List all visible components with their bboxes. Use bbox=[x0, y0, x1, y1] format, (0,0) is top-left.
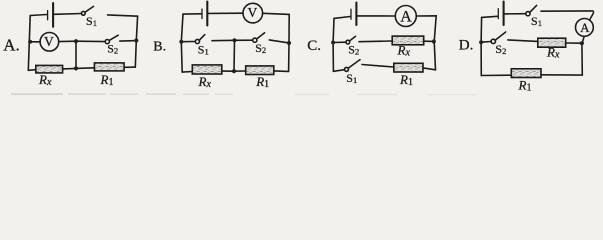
wire C top-left bbox=[334, 17, 350, 19]
wire node to R1 bbox=[234, 70, 246, 72]
wire node to S2 bbox=[235, 39, 253, 41]
battery bbox=[498, 2, 503, 26]
wire S2 to Rx bbox=[508, 40, 538, 42]
resistor R1 bbox=[246, 66, 274, 75]
wire V to middle node bbox=[59, 40, 76, 42]
wire A to top-right corner bbox=[416, 16, 436, 42]
wire S2 to right wire bbox=[269, 40, 289, 43]
svg-text:R1: R1 bbox=[518, 77, 532, 93]
resistor Rx bbox=[192, 65, 222, 74]
junction bbox=[28, 40, 32, 44]
wire bottom-left bbox=[481, 74, 511, 76]
svg-text:S1: S1 bbox=[198, 42, 209, 56]
svg-text:S1: S1 bbox=[86, 14, 97, 28]
wire node to S2 bbox=[76, 40, 105, 42]
wire R1 to bottom-right bbox=[541, 74, 582, 76]
ammeter A bbox=[576, 19, 594, 37]
wire D top-left bbox=[482, 16, 498, 17]
resistor Rx bbox=[36, 65, 63, 73]
wire S1 to top-right corner bbox=[108, 15, 138, 41]
svg-text:D.: D. bbox=[459, 37, 474, 53]
junction bbox=[287, 41, 291, 45]
junction bbox=[74, 66, 78, 70]
junction bbox=[479, 40, 483, 44]
wire left bottom corner to S1 bbox=[333, 70, 344, 72]
wire V to top-right corner bbox=[263, 13, 290, 43]
voltmeter V bbox=[40, 33, 59, 52]
battery bbox=[48, 3, 54, 27]
wire left to S2 bbox=[481, 41, 491, 44]
wire Rx to node bbox=[222, 70, 234, 72]
wire battery to S1 bbox=[505, 13, 526, 15]
wire A left side bbox=[28, 16, 30, 71]
wire battery to A bbox=[358, 15, 395, 17]
wire A to junction bbox=[582, 36, 584, 43]
svg-text:R1: R1 bbox=[255, 74, 269, 90]
svg-text:A: A bbox=[580, 20, 590, 35]
wire left to S1 bbox=[181, 41, 195, 43]
junction bbox=[179, 40, 183, 44]
voltmeter V bbox=[243, 3, 263, 23]
wire C left side bbox=[332, 19, 335, 72]
wire S2 to right wire bbox=[120, 40, 137, 43]
switch S1 bbox=[345, 60, 361, 72]
battery bbox=[202, 2, 207, 26]
svg-text:R1: R1 bbox=[399, 72, 413, 88]
switch S2 bbox=[491, 32, 506, 44]
junction bbox=[580, 41, 584, 45]
switch S1 bbox=[195, 35, 205, 44]
wire A top-left bbox=[30, 15, 47, 16]
junction bbox=[232, 38, 236, 42]
wire battery to S1 bbox=[54, 13, 81, 16]
wire D left side bbox=[480, 17, 483, 75]
bleed-through smudge bottom-left bbox=[11, 93, 476, 95]
wire battery to V bbox=[209, 12, 244, 14]
svg-text:S1: S1 bbox=[531, 14, 542, 28]
wire Rx to junction bbox=[566, 42, 582, 44]
svg-text:B.: B. bbox=[153, 39, 166, 54]
switch S2 bbox=[253, 33, 265, 43]
svg-text:A: A bbox=[400, 9, 412, 26]
wire right side down bbox=[434, 42, 435, 70]
wire right side down bbox=[581, 43, 583, 75]
svg-text:S1: S1 bbox=[346, 71, 357, 85]
wire left to V bbox=[30, 41, 40, 43]
svg-text:Rx: Rx bbox=[198, 74, 212, 90]
resistor Rx bbox=[538, 38, 566, 47]
junction bbox=[331, 41, 335, 45]
switch S2 bbox=[346, 36, 356, 44]
junction bbox=[74, 39, 78, 43]
switch S2 bbox=[105, 35, 118, 44]
wire bottom-left bbox=[28, 69, 36, 72]
svg-text:R1: R1 bbox=[100, 72, 114, 88]
wire bottom-left bbox=[182, 71, 192, 74]
resistor R1 bbox=[394, 63, 423, 72]
wire middle vertical bbox=[75, 41, 77, 68]
wire S1 to middle node bbox=[212, 39, 235, 41]
resistor R1 bbox=[94, 63, 124, 71]
junction bbox=[432, 39, 436, 43]
wire node to R1 bbox=[76, 67, 94, 70]
svg-text:S2: S2 bbox=[348, 43, 359, 57]
wire S1 to top-right corner bbox=[541, 11, 594, 20]
resistor R1 bbox=[511, 69, 541, 78]
svg-text:S2: S2 bbox=[107, 41, 118, 55]
resistor Rx bbox=[392, 36, 424, 45]
switch S1 bbox=[81, 6, 93, 15]
svg-text:Rx: Rx bbox=[38, 72, 52, 88]
junction bbox=[232, 69, 236, 73]
switch S1 bbox=[526, 5, 537, 15]
svg-text:V: V bbox=[248, 5, 258, 20]
ammeter A bbox=[395, 6, 416, 27]
wire B left side bbox=[181, 14, 183, 72]
wire R1 to bottom-right bbox=[274, 70, 289, 73]
svg-text:V: V bbox=[44, 34, 54, 49]
wire left to S2 bbox=[333, 41, 346, 43]
wire right side down bbox=[135, 41, 136, 68]
wire S2 to Rx bbox=[359, 40, 392, 43]
wire S1 to R1 bbox=[362, 65, 394, 68]
svg-text:C.: C. bbox=[307, 38, 321, 54]
wire right side down bbox=[288, 43, 290, 71]
svg-text:S2: S2 bbox=[495, 42, 506, 56]
wire middle vertical bbox=[233, 40, 236, 71]
junction bbox=[134, 38, 138, 42]
svg-text:S2: S2 bbox=[255, 41, 266, 55]
wire Rx to node bbox=[63, 67, 76, 70]
wire B top-left bbox=[183, 13, 201, 15]
wire R1 to bottom-right bbox=[124, 66, 135, 68]
wire Rx to right wire bbox=[424, 40, 434, 42]
wire R1 to bottom-right corner bbox=[423, 68, 436, 70]
svg-text:A.: A. bbox=[3, 35, 20, 54]
battery bbox=[351, 3, 356, 26]
